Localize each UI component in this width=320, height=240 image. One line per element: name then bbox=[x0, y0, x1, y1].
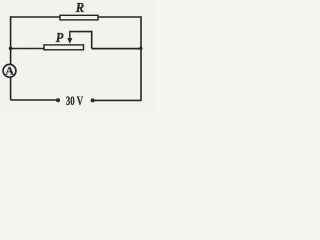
resistor R body bbox=[60, 15, 98, 20]
wire bottom-left to battery terminal bbox=[11, 99, 57, 101]
wiper arrowhead bbox=[67, 38, 72, 44]
junction node right bbox=[139, 47, 142, 50]
paper noise overlay bbox=[0, 0, 156, 112]
wire resistor to top-right corner bbox=[98, 16, 141, 18]
potentiometer P track bbox=[44, 45, 84, 50]
battery terminal dot left bbox=[56, 98, 60, 102]
wire top-left to resistor bbox=[11, 16, 61, 18]
wire left side vertical bbox=[10, 16, 12, 100]
wire right side vertical bbox=[140, 16, 142, 101]
junction node left bbox=[9, 47, 13, 51]
ammeter A circle bbox=[3, 64, 16, 77]
wiper arrow stem bbox=[69, 32, 71, 39]
wire wiper step down bbox=[91, 31, 93, 49]
wire middle branch right bbox=[92, 48, 141, 50]
wire middle branch left bbox=[11, 48, 44, 50]
paper background bbox=[0, 0, 156, 112]
wire wiper step top bbox=[69, 31, 92, 33]
battery terminal dot right bbox=[91, 98, 95, 102]
wire battery terminal to bottom-right bbox=[93, 99, 141, 101]
